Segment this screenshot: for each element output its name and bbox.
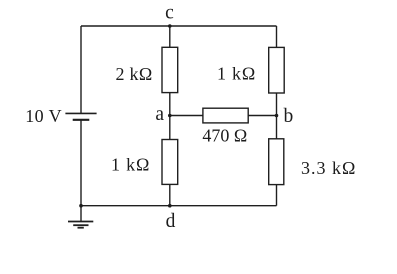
svg-text:1 kΩ: 1 kΩ [111, 154, 150, 174]
svg-text:d: d [166, 211, 176, 232]
svg-text:3.3 kΩ: 3.3 kΩ [301, 158, 356, 178]
svg-text:470 Ω: 470 Ω [202, 125, 247, 145]
svg-text:a: a [155, 104, 164, 125]
svg-text:2 kΩ: 2 kΩ [115, 64, 152, 84]
svg-text:10 V: 10 V [25, 106, 62, 126]
svg-text:b: b [284, 106, 294, 127]
svg-text:1 kΩ: 1 kΩ [217, 64, 256, 84]
svg-text:c: c [165, 3, 174, 24]
